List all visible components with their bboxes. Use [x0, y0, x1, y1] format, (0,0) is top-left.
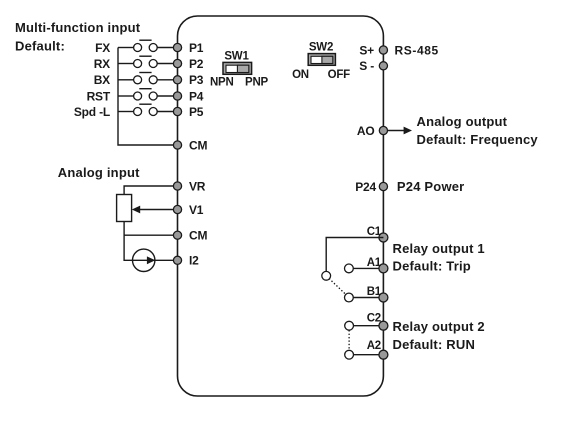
svg-text:S -: S -: [359, 59, 374, 73]
wire C1 to pivot: [326, 238, 383, 272]
wire pot bottom: [124, 222, 133, 261]
svg-text:Default: Trip: Default: Trip: [393, 259, 471, 274]
arrow AO out: [388, 127, 413, 135]
svg-text:Relay output 1: Relay output 1: [393, 241, 485, 256]
svg-text:Default:: Default:: [15, 38, 65, 53]
terminal B1: [367, 286, 388, 302]
relay1 contact B1 circle: [345, 293, 354, 302]
switch S-RX: [118, 56, 174, 67]
svg-text:BX: BX: [94, 73, 110, 87]
wire C2: [354, 325, 384, 327]
svg-text:P5: P5: [189, 105, 204, 119]
svg-text:C2: C2: [367, 312, 381, 324]
svg-text:Multi-function input: Multi-function input: [15, 20, 141, 35]
wire A2: [354, 354, 384, 356]
wire B1: [353, 297, 383, 299]
terminal C1: [367, 226, 388, 242]
relay2 armature dotted: [348, 331, 350, 350]
inverter body U1: [178, 16, 384, 396]
svg-text:Analog output: Analog output: [417, 114, 508, 129]
wire CM branch: [124, 234, 173, 236]
svg-text:C1: C1: [367, 226, 382, 238]
svg-text:S+: S+: [359, 43, 374, 57]
terminal P2: [173, 57, 203, 71]
terminal A2: [367, 340, 388, 359]
svg-text:Default: RUN: Default: RUN: [393, 337, 476, 352]
terminal VR: [173, 179, 205, 193]
svg-text:P3: P3: [189, 73, 204, 87]
svg-text:PNP: PNP: [245, 77, 269, 89]
svg-text:P24 Power: P24 Power: [397, 179, 465, 194]
relay1 armature dotted: [330, 279, 346, 294]
switch S-BX: [118, 73, 174, 84]
switch S-SpdL: [118, 104, 174, 115]
svg-text:A1: A1: [367, 257, 382, 269]
switch SW1: [210, 51, 269, 89]
svg-text:P2: P2: [189, 57, 204, 71]
switch S-RST: [118, 89, 174, 100]
svg-text:OFF: OFF: [328, 69, 351, 81]
relay1 pivot contact: [322, 271, 331, 280]
terminal P24: [355, 180, 387, 194]
svg-text:Default: Frequency: Default: Frequency: [417, 132, 539, 147]
terminal P5: [173, 105, 203, 119]
svg-text:Analog input: Analog input: [58, 165, 140, 180]
svg-text:V1: V1: [189, 203, 204, 217]
svg-text:P24: P24: [355, 180, 376, 194]
terminal A1: [367, 257, 388, 273]
svg-text:P1: P1: [189, 41, 204, 55]
svg-text:SW1: SW1: [224, 51, 249, 63]
wiper arrow to V1: [132, 206, 174, 214]
terminal I2: [173, 254, 199, 268]
potentiometer R-pot: [117, 186, 174, 222]
terminal AO: [357, 124, 388, 138]
terminal CM2: [173, 229, 207, 243]
svg-text:B1: B1: [367, 286, 382, 298]
terminal S-: [359, 59, 387, 73]
svg-text:RS-485: RS-485: [395, 43, 439, 57]
svg-text:RST: RST: [87, 89, 111, 103]
relay2 contact C2 circle: [345, 321, 354, 330]
svg-text:AO: AO: [357, 124, 375, 138]
switch SW2: [292, 42, 350, 81]
wire input bus: [118, 48, 174, 146]
terminal P4: [173, 89, 203, 103]
svg-text:A2: A2: [367, 340, 381, 352]
svg-text:FX: FX: [95, 41, 110, 55]
svg-text:ON: ON: [292, 69, 309, 81]
terminal P3: [173, 73, 203, 87]
terminal C2: [367, 312, 388, 330]
terminal S+: [359, 43, 387, 57]
wire A1: [353, 267, 383, 269]
relay2 contact A2 circle: [345, 350, 354, 359]
switch S-FX: [118, 40, 174, 51]
relay1 contact A1 circle: [345, 264, 354, 273]
svg-text:NPN: NPN: [210, 77, 234, 89]
svg-text:Spd -L: Spd -L: [74, 105, 110, 119]
svg-text:P4: P4: [189, 89, 204, 103]
terminal V1: [173, 203, 203, 217]
svg-text:VR: VR: [189, 179, 206, 193]
svg-text:CM: CM: [189, 229, 207, 243]
svg-text:SW2: SW2: [309, 42, 333, 54]
terminal P1: [173, 41, 203, 55]
svg-text:RX: RX: [94, 57, 110, 71]
svg-text:Relay output 2: Relay output 2: [393, 319, 485, 334]
terminal CM1: [173, 138, 207, 152]
svg-text:I2: I2: [189, 254, 199, 268]
svg-text:CM: CM: [189, 138, 207, 152]
current source I-src: [133, 249, 174, 271]
